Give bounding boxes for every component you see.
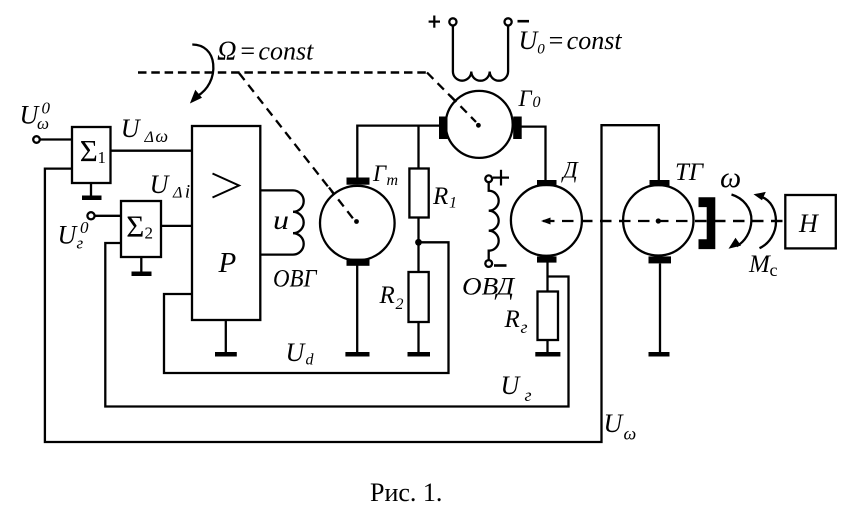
wire TG bottom xyxy=(659,264,661,354)
arc arrow omega shaft xyxy=(732,195,752,247)
dashed diagonal tail inside G0 xyxy=(450,96,476,123)
brush G0 right xyxy=(513,117,522,140)
wire U_d feedback xyxy=(164,242,449,373)
plus sign U0 xyxy=(429,16,440,28)
regulator P box xyxy=(192,126,260,320)
svg-text:г: г xyxy=(77,234,84,253)
ground under R2 xyxy=(408,352,431,357)
svg-text:ОВД: ОВД xyxy=(462,274,516,301)
svg-text:ω: ω xyxy=(37,114,49,133)
brush Gm top xyxy=(347,178,370,185)
generator Gm xyxy=(320,186,395,261)
brush D top xyxy=(537,180,557,186)
minus sign OVD xyxy=(494,264,507,267)
wire U_dw S1 to P xyxy=(111,150,193,152)
chevron in P xyxy=(213,174,240,198)
dashed diagonal to Gm center xyxy=(239,73,353,219)
arrowhead Mc arc xyxy=(754,192,766,200)
wire R2 bottom xyxy=(417,322,419,353)
brush D bottom xyxy=(537,256,557,262)
wire Gm bottom xyxy=(356,266,358,354)
svg-text:m: m xyxy=(387,172,399,189)
brush Gm bottom xyxy=(347,259,370,266)
dashed shaft tail inside D and TG xyxy=(543,220,785,222)
terminal OVD minus xyxy=(485,260,492,267)
svg-text:г: г xyxy=(521,317,528,337)
svg-text:с: с xyxy=(770,260,778,280)
terminal OVD plus xyxy=(485,175,492,182)
brush TG bottom xyxy=(649,256,672,263)
svg-text:R: R xyxy=(432,183,448,210)
svg-text:ω: ω xyxy=(720,161,741,194)
ground under S1 xyxy=(82,183,102,198)
terminal U_g0 xyxy=(87,212,94,219)
svg-text:U: U xyxy=(121,114,142,143)
ground under Gm xyxy=(345,352,369,357)
svg-text:U: U xyxy=(58,220,79,249)
dashed line Omega reference xyxy=(138,71,427,74)
svg-text:Δω: Δω xyxy=(144,126,169,146)
dashed shaft line xyxy=(543,220,785,222)
brush TG top xyxy=(650,180,670,186)
svg-text:г: г xyxy=(525,385,532,405)
svg-text:Σ: Σ xyxy=(80,133,98,168)
load H box xyxy=(785,195,836,248)
ground under S2 xyxy=(132,257,152,274)
coil U0 xyxy=(453,26,508,81)
rotation arrow arc near Omega xyxy=(192,45,213,97)
svg-text:d: d xyxy=(306,352,315,369)
svg-text:ω: ω xyxy=(624,424,637,444)
svg-text:2: 2 xyxy=(145,224,154,243)
wire G0 right to motor D xyxy=(521,127,546,181)
resistor Rg xyxy=(538,292,559,341)
svg-text:2: 2 xyxy=(396,296,404,313)
ground under TG xyxy=(649,352,670,357)
svg-text:Г: Г xyxy=(518,86,533,111)
node junction dot xyxy=(415,239,422,246)
svg-text:R: R xyxy=(379,282,395,309)
wire U_w feedback xyxy=(45,125,659,442)
terminal U0 plus xyxy=(449,18,456,25)
coil OVD xyxy=(489,182,499,260)
svg-text:0: 0 xyxy=(533,94,541,111)
dashed diagonal to G0 center xyxy=(427,73,476,123)
minus sign U0 xyxy=(518,20,530,23)
coil OVG xyxy=(260,190,303,254)
terminal U_w0 xyxy=(33,136,40,143)
resistor R1 xyxy=(409,169,428,218)
svg-text:1: 1 xyxy=(98,148,107,167)
wire R1 to node to R2 xyxy=(417,218,419,273)
coupling bracket xyxy=(699,197,716,249)
svg-text:U0 = const: U0 = const xyxy=(519,26,623,58)
brush G0 left xyxy=(439,117,448,140)
wire bus Gm to G0 xyxy=(357,126,439,178)
tachogenerator TG xyxy=(623,185,693,255)
wire U_g feedback xyxy=(105,243,568,407)
svg-text:1: 1 xyxy=(449,195,457,212)
svg-text:R: R xyxy=(504,306,520,333)
summer S1 box xyxy=(72,127,111,183)
center dot Gm xyxy=(354,219,359,224)
svg-text:U: U xyxy=(150,170,171,199)
svg-text:P: P xyxy=(218,247,237,279)
generator G0 xyxy=(446,91,513,158)
wire D bottom to Rg xyxy=(546,262,548,292)
arrowhead rotation arc xyxy=(190,90,202,104)
plus sign OVD xyxy=(493,170,509,186)
wire input S2 xyxy=(95,215,122,217)
motor D xyxy=(511,185,582,256)
terminal U0 minus xyxy=(505,18,512,25)
wire R1 top tap xyxy=(417,126,419,169)
shaft arrow in D xyxy=(541,218,551,225)
ground under Rg xyxy=(535,352,560,357)
ground under P xyxy=(215,320,237,354)
wire U_di S2 to P xyxy=(161,225,192,227)
svg-text:U: U xyxy=(604,409,625,438)
arrowhead omega arc xyxy=(729,238,742,249)
svg-text:Рис. 1.: Рис. 1. xyxy=(370,478,442,507)
svg-text:u: u xyxy=(273,205,289,235)
arc arrow Mc shaft xyxy=(760,197,777,248)
svg-text:Δi: Δi xyxy=(172,182,190,203)
svg-text:Ω = const: Ω = const xyxy=(217,36,314,66)
summer S2 box xyxy=(121,201,161,257)
resistor R2 xyxy=(409,272,429,322)
svg-text:U: U xyxy=(501,371,522,400)
svg-text:Σ: Σ xyxy=(126,209,144,244)
svg-text:ОВГ: ОВГ xyxy=(273,266,318,293)
center dot G0 xyxy=(476,123,481,128)
svg-text:М: М xyxy=(748,251,771,278)
dashed diagonal tail inside Gm xyxy=(329,188,353,219)
svg-text:Д: Д xyxy=(561,158,579,183)
svg-text:Г: Г xyxy=(372,161,387,186)
svg-text:Н: Н xyxy=(798,209,819,238)
svg-text:U: U xyxy=(286,338,307,367)
svg-text:ТГ: ТГ xyxy=(675,159,705,186)
center dot TG xyxy=(656,218,661,223)
wire input S1 xyxy=(40,138,72,140)
wire Rg bottom xyxy=(546,340,548,353)
